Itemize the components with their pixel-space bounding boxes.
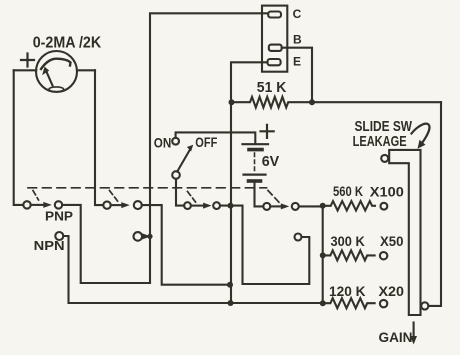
wedge link pole 2 NPN to collector line — [142, 233, 151, 239]
svg-text:51 K: 51 K — [257, 79, 287, 96]
wire 51K to right rail — [312, 101, 441, 103]
svg-text:GAIN: GAIN — [379, 329, 413, 345]
wire meter right lead — [77, 69, 95, 71]
slide switch leakage contact — [381, 155, 388, 162]
mechanical gang dashed line — [28, 187, 267, 189]
rotary switch pole 2 contact B — [134, 201, 142, 209]
wire pole 4 output to resistor bank — [299, 205, 323, 207]
node 51K left junction — [229, 99, 235, 105]
gang link pole 4 — [268, 191, 279, 203]
slide switch slider channel — [389, 150, 420, 315]
contact NPN position pole 4 — [295, 234, 302, 241]
wire meter left vertical to PNP switch pole 1 — [14, 70, 24, 205]
resistor R3 300K — [323, 250, 375, 260]
svg-text:560 K: 560 K — [333, 184, 363, 199]
wire right rail vertical to gain contact — [428, 102, 441, 306]
wire collector top loop to socket C — [150, 13, 268, 283]
svg-text:300 K: 300 K — [331, 234, 365, 249]
svg-text:E: E — [293, 55, 301, 69]
rotary switch pole 1 contact A — [23, 201, 30, 208]
svg-text:LEAKAGE: LEAKAGE — [353, 133, 407, 150]
svg-text:X50: X50 — [380, 234, 404, 249]
node pole 3 emitter junction — [228, 203, 234, 209]
switch SW1 arm arrowhead — [187, 145, 193, 152]
wire emitter E to left vertical — [231, 62, 268, 102]
gain direction arrow — [413, 323, 415, 339]
meter M1 0-2MA movement — [36, 51, 77, 92]
pole 1 wiper arm with arrowhead — [31, 204, 44, 206]
wire pole 3 output to emitter line — [220, 206, 309, 284]
switch SW1 ON-OFF contact — [172, 138, 179, 145]
svg-text:X20: X20 — [379, 284, 405, 299]
wire ON contact to emitter line and battery positive — [176, 132, 256, 143]
wire pole 2 output down to emitter rail A — [142, 205, 230, 285]
battery B1 plate short negative — [249, 148, 262, 152]
gang link pole 1 — [33, 191, 39, 201]
svg-text:B: B — [293, 33, 302, 47]
wire SW1 pivot down to pole 3 — [176, 179, 184, 206]
rotary switch pole 3 contact A — [184, 202, 191, 209]
wire emitter line vertical — [230, 102, 232, 303]
resistor R4 120K — [323, 298, 375, 308]
wire meter left lead — [14, 69, 37, 71]
resistor R2 560K — [323, 201, 375, 210]
svg-text:6V: 6V — [262, 154, 280, 170]
wire meter right vertical to switch pole 2 — [95, 70, 103, 205]
resistor R1 51K — [231, 97, 312, 108]
node resistor bank top junction — [320, 203, 326, 209]
node bottom rail emitter junction — [228, 300, 234, 306]
terminal circle R2 — [381, 203, 388, 210]
wire base B to right vertical — [282, 48, 312, 102]
battery cell dashed link — [254, 153, 256, 171]
wire battery negative to switch pole 4 — [255, 183, 264, 207]
node emitter rail A junction — [227, 282, 233, 288]
gang link pole 3 — [188, 192, 196, 203]
meter plus polarity mark — [21, 54, 34, 67]
slide switch gain contact — [421, 302, 428, 309]
wire NPN contact down to bottom rail — [63, 236, 322, 303]
svg-text:C: C — [293, 7, 302, 21]
battery B1 plate long positive 2 — [244, 174, 266, 176]
node 51K right junction — [309, 99, 315, 105]
svg-text:X100: X100 — [370, 184, 404, 199]
battery plus mark — [261, 125, 274, 138]
svg-text:ON: ON — [154, 136, 172, 151]
rotary switch pole 4 contact B — [292, 203, 299, 210]
socket pin C — [268, 12, 281, 18]
node resistor bank bottom junction — [320, 300, 326, 306]
gang link pole 2 — [110, 191, 118, 202]
svg-text:OFF: OFF — [195, 135, 217, 150]
switch SW1 pivot contact — [172, 171, 180, 179]
socket pin E — [268, 59, 281, 65]
wire resistor bank vertical — [322, 206, 324, 303]
socket pin B — [269, 45, 282, 51]
battery B1 plate short negative 2 — [249, 179, 261, 183]
battery B1 plate long positive — [243, 143, 269, 145]
pole 2 wiper arm with arrowhead — [111, 204, 122, 206]
wire pole 1 output down to collector rail — [62, 205, 150, 283]
contact NPN position pole 2 — [134, 232, 143, 241]
terminal circle R3 — [380, 252, 387, 259]
pole 4 wiper arm with arrowhead — [270, 205, 281, 207]
switch SW1 arm blade — [177, 150, 190, 172]
node resistor bank middle junction — [320, 252, 326, 258]
terminal circle R4 — [380, 300, 387, 307]
transistor socket outline — [262, 6, 287, 72]
pole 3 wiper arm with arrowhead — [191, 205, 203, 207]
svg-text:0-2MA /2K: 0-2MA /2K — [33, 34, 102, 51]
rotary switch pole 4 contact A — [263, 203, 270, 210]
rotary switch pole 3 contact B — [213, 202, 220, 209]
svg-text:120 K: 120 K — [329, 284, 366, 299]
pointer arrow to slide switch — [412, 124, 430, 143]
rotary switch pole 1 contact B — [55, 201, 62, 208]
svg-text:NPN: NPN — [34, 238, 65, 253]
svg-text:PNP: PNP — [45, 208, 73, 223]
rotary switch pole 2 contact A — [103, 201, 110, 208]
contact NPN position pole 1 — [55, 232, 63, 240]
